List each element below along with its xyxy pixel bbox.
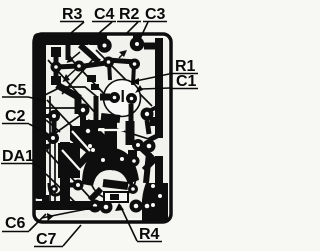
svg-text:C4: C4	[94, 6, 115, 23]
svg-text:R2: R2	[119, 6, 140, 23]
svg-text:C2: C2	[5, 108, 26, 125]
svg-text:C3: C3	[145, 6, 166, 23]
svg-text:R3: R3	[62, 6, 83, 23]
svg-text:C6: C6	[5, 215, 26, 232]
svg-text:C1: C1	[176, 73, 197, 90]
svg-text:R4: R4	[139, 226, 160, 243]
svg-text:C7: C7	[36, 231, 57, 248]
svg-text:DA1: DA1	[2, 148, 34, 165]
